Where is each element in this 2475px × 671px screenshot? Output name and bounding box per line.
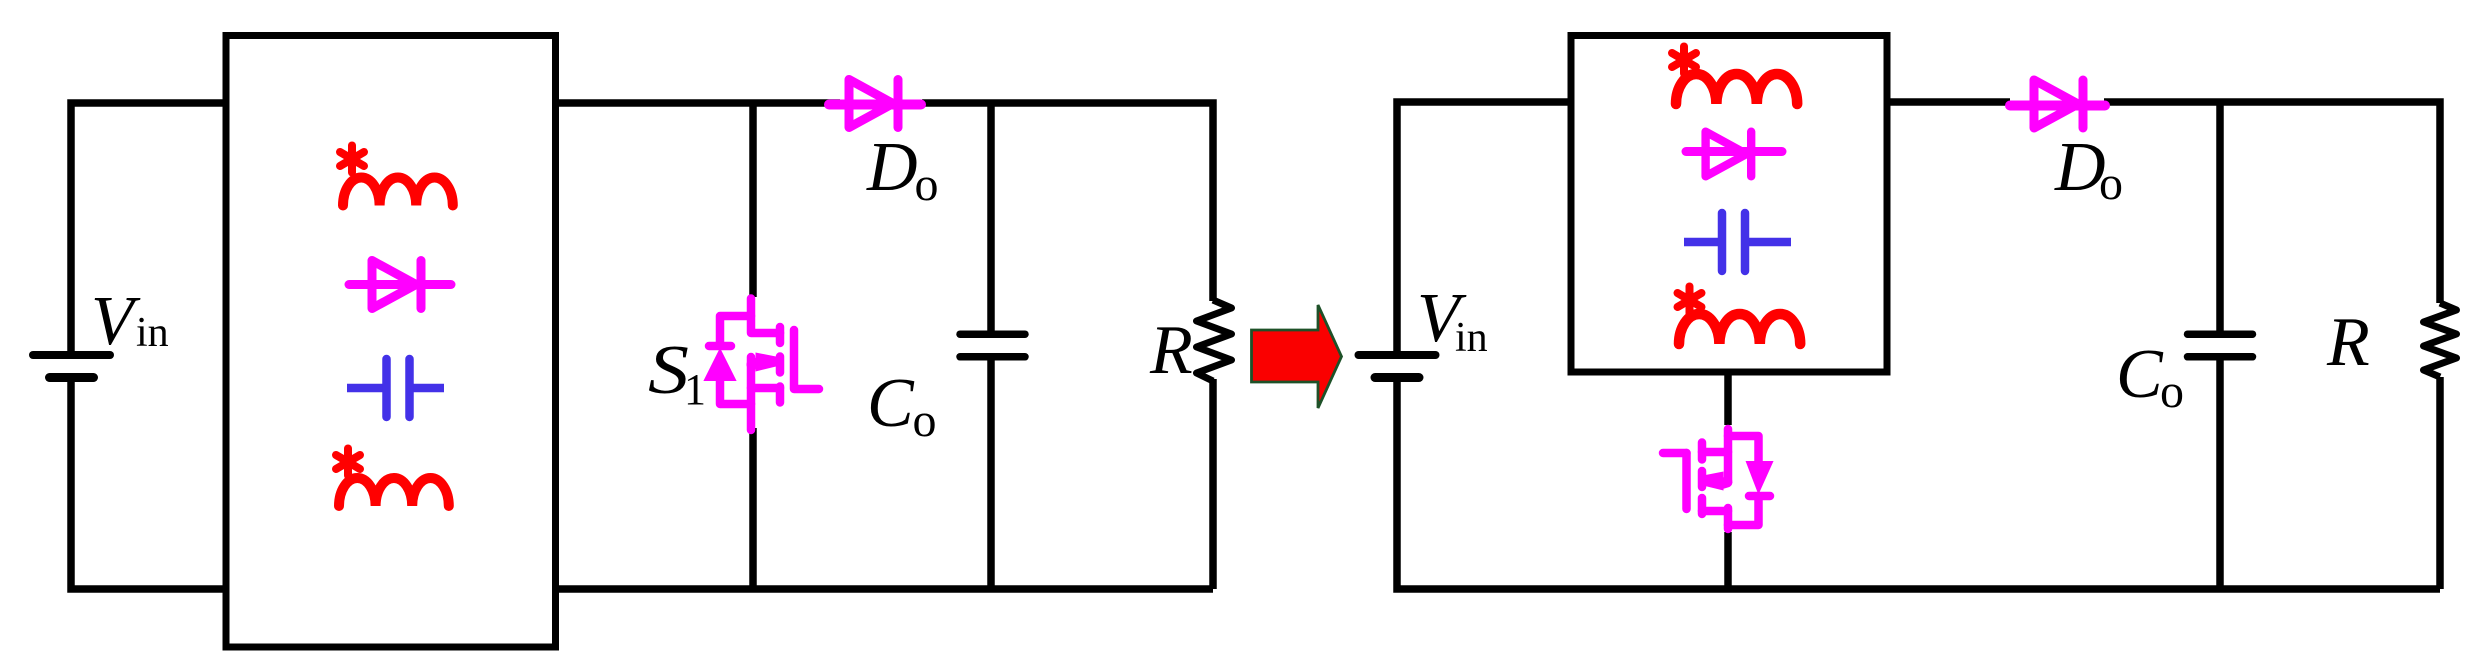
svg-text:1: 1 xyxy=(684,365,706,414)
svg-text:in: in xyxy=(136,310,169,356)
svg-text:S: S xyxy=(648,331,689,408)
svg-text:R: R xyxy=(1149,312,1193,389)
svg-text:D: D xyxy=(866,129,918,206)
svg-text:in: in xyxy=(1455,315,1488,361)
svg-text:o: o xyxy=(913,394,937,447)
svg-text:o: o xyxy=(915,158,939,211)
svg-text:D: D xyxy=(2054,129,2106,206)
svg-text:o: o xyxy=(2160,365,2184,418)
svg-text:o: o xyxy=(2099,157,2123,210)
svg-text:C: C xyxy=(2116,336,2164,413)
svg-text:R: R xyxy=(2326,304,2370,381)
svg-text:C: C xyxy=(867,365,915,442)
svg-text:V: V xyxy=(91,283,141,360)
